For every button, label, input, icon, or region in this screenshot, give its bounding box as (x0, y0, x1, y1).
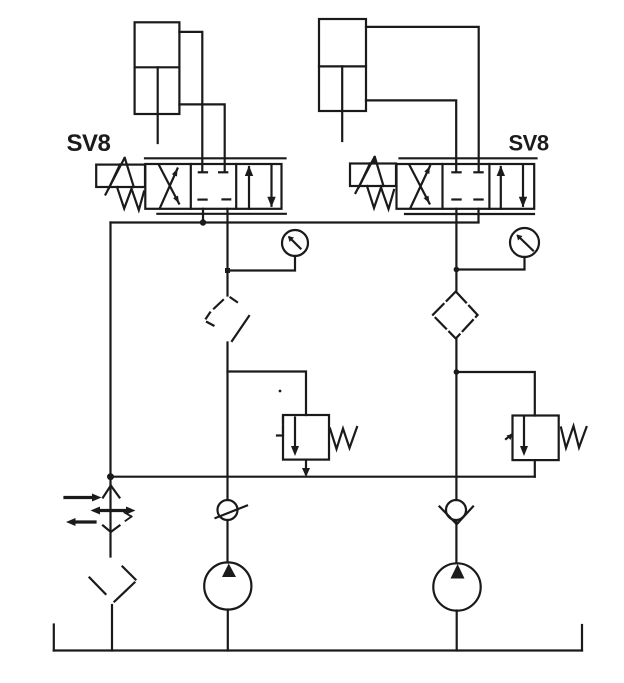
svg-text:SV8: SV8 (509, 131, 549, 156)
wire left return rail (109, 223, 111, 557)
valve V1 center closed position port marks (199, 171, 207, 173)
valve V2 bottom rail (405, 213, 534, 215)
cylinder CYL1 rod (157, 67, 159, 143)
wire branch to relief RV1 (228, 372, 307, 416)
node junction left rail (107, 473, 114, 480)
valve V2 crossed-arrows position (409, 165, 429, 204)
wire below F2 (455, 339, 457, 501)
wire V1 T port stub (202, 209, 204, 223)
wire P2 to tank (456, 611, 458, 651)
node junction PG1 (225, 268, 230, 273)
relief valve RV2 spring (561, 426, 587, 448)
cylinder CYL2 piston (319, 65, 366, 67)
filter F2 (right pressure line) (433, 292, 478, 339)
cylinder CYL1 body (135, 22, 180, 114)
valve V2 body (397, 164, 535, 209)
check valve CV2 (446, 500, 466, 520)
wire CV2 to pump (455, 521, 457, 564)
wire CYL1 port A to valve V1 (179, 32, 202, 171)
relief valve RV1 pilot dashes (277, 417, 284, 436)
cylinder CYL2 rod (341, 66, 343, 141)
pressure gauge PG1 (282, 230, 308, 256)
wire below F1 (226, 343, 228, 501)
valve V1 top rail (145, 157, 286, 159)
node junction PG2 (454, 267, 460, 273)
wire P1 to tank (227, 610, 229, 651)
wire F3 to tank (111, 605, 113, 651)
valve V2 top rail (400, 157, 537, 159)
relief valve RV2 flow arrow (523, 418, 525, 451)
spring V2 (375, 157, 384, 186)
wire bottom return line (111, 476, 535, 478)
valve V2 parallel-arrows position (500, 167, 502, 209)
wire CYL2 port B to valve V2 (366, 100, 456, 171)
wire RV1 outlet (305, 460, 307, 474)
wire PG2 to P line (456, 257, 524, 270)
relief valve RV2 pilot arrow (506, 435, 511, 439)
relief valve RV1 body (283, 415, 329, 460)
wire CYL2 port A to valve V2 (366, 27, 479, 171)
valve V1 crossed-arrows position (159, 165, 179, 204)
relief valve RV1 flow arrow (294, 418, 296, 451)
cylinder CYL1 piston (135, 66, 180, 68)
filter F1 (left pressure line) (214, 300, 223, 309)
pressure gauge PG2 (510, 228, 539, 257)
wire tank return header (111, 221, 479, 223)
wire V2 P port down (455, 209, 457, 292)
node junction V1 T (200, 219, 206, 225)
pump P1 (204, 562, 251, 609)
solenoid V2 slashes (356, 157, 375, 193)
coupling arrows symbol (103, 486, 111, 498)
wire RV2 outlet (534, 460, 536, 477)
valve V2 center closed position port marks (452, 171, 460, 173)
spring V1 (125, 158, 134, 187)
wire CV1 to pump (226, 521, 228, 563)
solenoid V1 box (96, 165, 145, 187)
relief valve RV2 body (513, 416, 559, 461)
solenoid V1 slashes (106, 158, 125, 195)
wire PG1 to P line (228, 256, 296, 271)
wire V2 T port stub (477, 209, 479, 223)
pump P2 (433, 563, 480, 610)
check valve CV1 (218, 500, 238, 520)
filter F3 (suction) (123, 567, 136, 580)
relief valve RV1 spring (330, 427, 357, 449)
valve V1 body (145, 164, 281, 209)
svg-text:SV8: SV8 (67, 130, 111, 157)
wire branch to relief RV2 (456, 372, 534, 416)
valve V1 bottom rail (157, 213, 285, 215)
cylinder CYL2 body (319, 19, 366, 111)
valve V1 parallel-arrows position (248, 167, 250, 209)
wire V1 P port down (226, 209, 228, 296)
tank line (54, 649, 582, 651)
wire CYL1 port B to valve V1 (179, 104, 224, 171)
node junction branch RV2 (454, 369, 460, 375)
solenoid V2 box (350, 164, 396, 187)
